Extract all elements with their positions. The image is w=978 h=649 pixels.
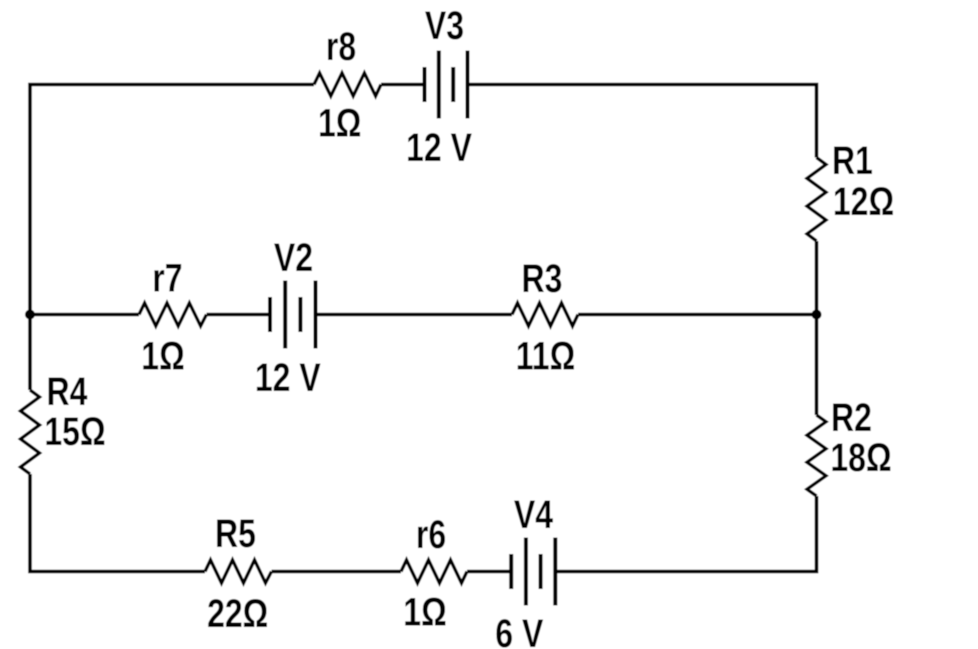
svg-text:V3: V3 xyxy=(425,3,464,48)
resistor R2 xyxy=(807,415,826,496)
svg-text:r6: r6 xyxy=(416,512,446,557)
svg-text:V2: V2 xyxy=(274,235,313,280)
svg-text:12Ω: 12Ω xyxy=(833,179,894,224)
svg-text:1Ω: 1Ω xyxy=(318,100,361,145)
resistor R1 xyxy=(807,158,826,242)
resistor R5 xyxy=(205,560,272,583)
wire bottom: R5 to r6 xyxy=(272,570,402,574)
resistor R4 xyxy=(21,390,40,474)
svg-text:r7: r7 xyxy=(152,255,182,300)
wire middle: node A to r7 xyxy=(30,313,139,317)
battery V3 xyxy=(425,51,468,119)
wire middle: V2 to R3 xyxy=(316,313,513,317)
wire left: R4 to bottom-left corner xyxy=(30,474,205,572)
wire middle: R3 to node B xyxy=(578,313,817,317)
svg-text:R5: R5 xyxy=(215,511,256,556)
wire bottom-right corner run xyxy=(555,496,817,572)
svg-text:R3: R3 xyxy=(522,256,563,301)
svg-text:12 V: 12 V xyxy=(406,125,472,170)
svg-text:22Ω: 22Ω xyxy=(207,591,268,636)
svg-text:r8: r8 xyxy=(326,24,356,69)
wire top-right corner run xyxy=(468,85,817,158)
svg-text:R2: R2 xyxy=(831,395,872,440)
svg-text:1Ω: 1Ω xyxy=(403,589,446,634)
svg-text:1Ω: 1Ω xyxy=(141,333,184,378)
wire top-left corner run xyxy=(30,85,314,391)
resistor r8 xyxy=(314,73,381,96)
node B junction dot xyxy=(812,310,822,320)
wire right: R1 to R2 xyxy=(815,241,819,415)
resistor R3 xyxy=(512,303,578,326)
node A junction dot xyxy=(25,310,35,320)
svg-text:R1: R1 xyxy=(832,138,873,183)
wire top: r8 to V3 xyxy=(381,83,425,87)
battery V2 xyxy=(270,281,316,349)
svg-text:11Ω: 11Ω xyxy=(516,333,575,378)
battery V4 xyxy=(511,538,555,606)
resistor r7 xyxy=(139,303,207,326)
wire middle: r7 to V2 xyxy=(207,313,271,317)
svg-text:R4: R4 xyxy=(47,369,88,414)
svg-text:V4: V4 xyxy=(514,492,553,537)
svg-text:15Ω: 15Ω xyxy=(44,409,105,454)
svg-text:6 V: 6 V xyxy=(495,611,543,649)
wire bottom: r6 to V4 xyxy=(467,570,511,574)
resistor r6 xyxy=(401,560,467,583)
svg-text:18Ω: 18Ω xyxy=(830,435,891,480)
svg-text:12 V: 12 V xyxy=(255,355,321,400)
